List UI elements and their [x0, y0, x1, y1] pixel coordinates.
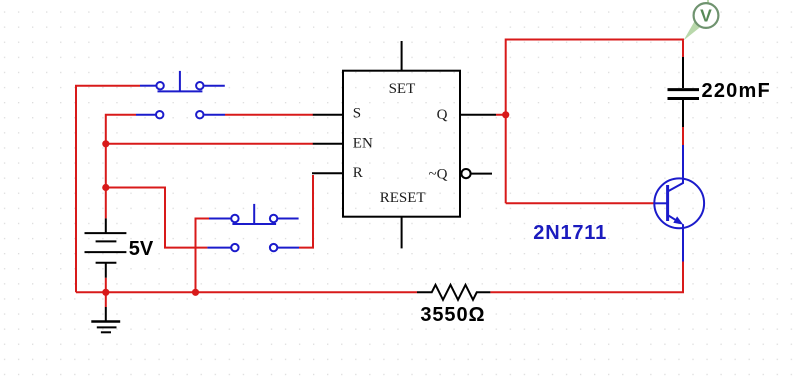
svg-text:EN: EN	[353, 136, 373, 152]
junction rail at battery	[102, 289, 109, 296]
svg-text:~Q: ~Q	[429, 166, 448, 182]
wire EN net to flip-flop	[106, 143, 313, 145]
voltmeter	[694, 3, 719, 28]
wire ground stub	[105, 292, 107, 307]
flip-flop pin Q lead	[460, 114, 496, 116]
svg-text:SET: SET	[389, 81, 416, 97]
wire battery junction to switch S4 left	[106, 188, 208, 248]
flip-flop ~Q bubble	[461, 169, 470, 178]
wire left branch to switch S1 and left rail	[76, 86, 140, 293]
wire bottom rail left segment	[76, 291, 417, 293]
junction battery top	[102, 184, 109, 191]
wire switch S4 right up to R pin	[299, 175, 313, 248]
transistor emitter arrow	[673, 216, 683, 224]
flip-flop pin S lead	[313, 114, 343, 116]
switch S1 (push button, top)	[140, 71, 225, 92]
wire from switch S2 left down to battery top	[106, 115, 136, 219]
svg-text:S: S	[353, 105, 361, 121]
switch S2 (open contacts)	[136, 111, 225, 118]
voltmeter probe wedge	[684, 22, 701, 41]
flip-flop RESET stem	[401, 217, 403, 249]
resistor R1	[417, 285, 490, 300]
flip-flop SET stem	[401, 41, 403, 71]
svg-text:V: V	[700, 5, 712, 25]
wire battery bottom to rail	[105, 278, 107, 293]
svg-text:5V: 5V	[129, 238, 154, 260]
flip-flop pin EN lead	[313, 143, 343, 145]
transistor Q1 2N1711	[654, 145, 704, 262]
voltmeter top stub	[707, 0, 709, 4]
switch S3 (push button, lower)	[209, 204, 299, 224]
battery V1	[85, 218, 127, 277]
junction Q output	[502, 111, 509, 118]
junction rail at switch branch	[192, 289, 199, 296]
svg-text:3550Ω: 3550Ω	[420, 304, 485, 326]
wire bottom rail right segment up to emitter	[490, 262, 683, 293]
junction EN	[102, 140, 109, 147]
wire switch S3 left down to bottom rail	[196, 219, 210, 293]
wire S net to flip-flop	[225, 114, 313, 116]
flip-flop U1 body	[343, 71, 460, 217]
svg-text:220mF: 220mF	[702, 80, 771, 102]
svg-text:RESET: RESET	[380, 190, 426, 206]
ground	[91, 307, 120, 332]
capacitor C1	[668, 57, 700, 127]
flip-flop pin R lead	[312, 172, 343, 174]
flip-flop ~Q lead	[471, 173, 492, 175]
svg-text:2N1711: 2N1711	[533, 222, 607, 244]
svg-text:R: R	[353, 165, 363, 181]
switch S4 (open contacts, lower)	[207, 244, 299, 251]
wire Q net	[496, 40, 683, 204]
wire capacitor to collector	[682, 127, 684, 145]
svg-text:Q: Q	[437, 107, 448, 123]
